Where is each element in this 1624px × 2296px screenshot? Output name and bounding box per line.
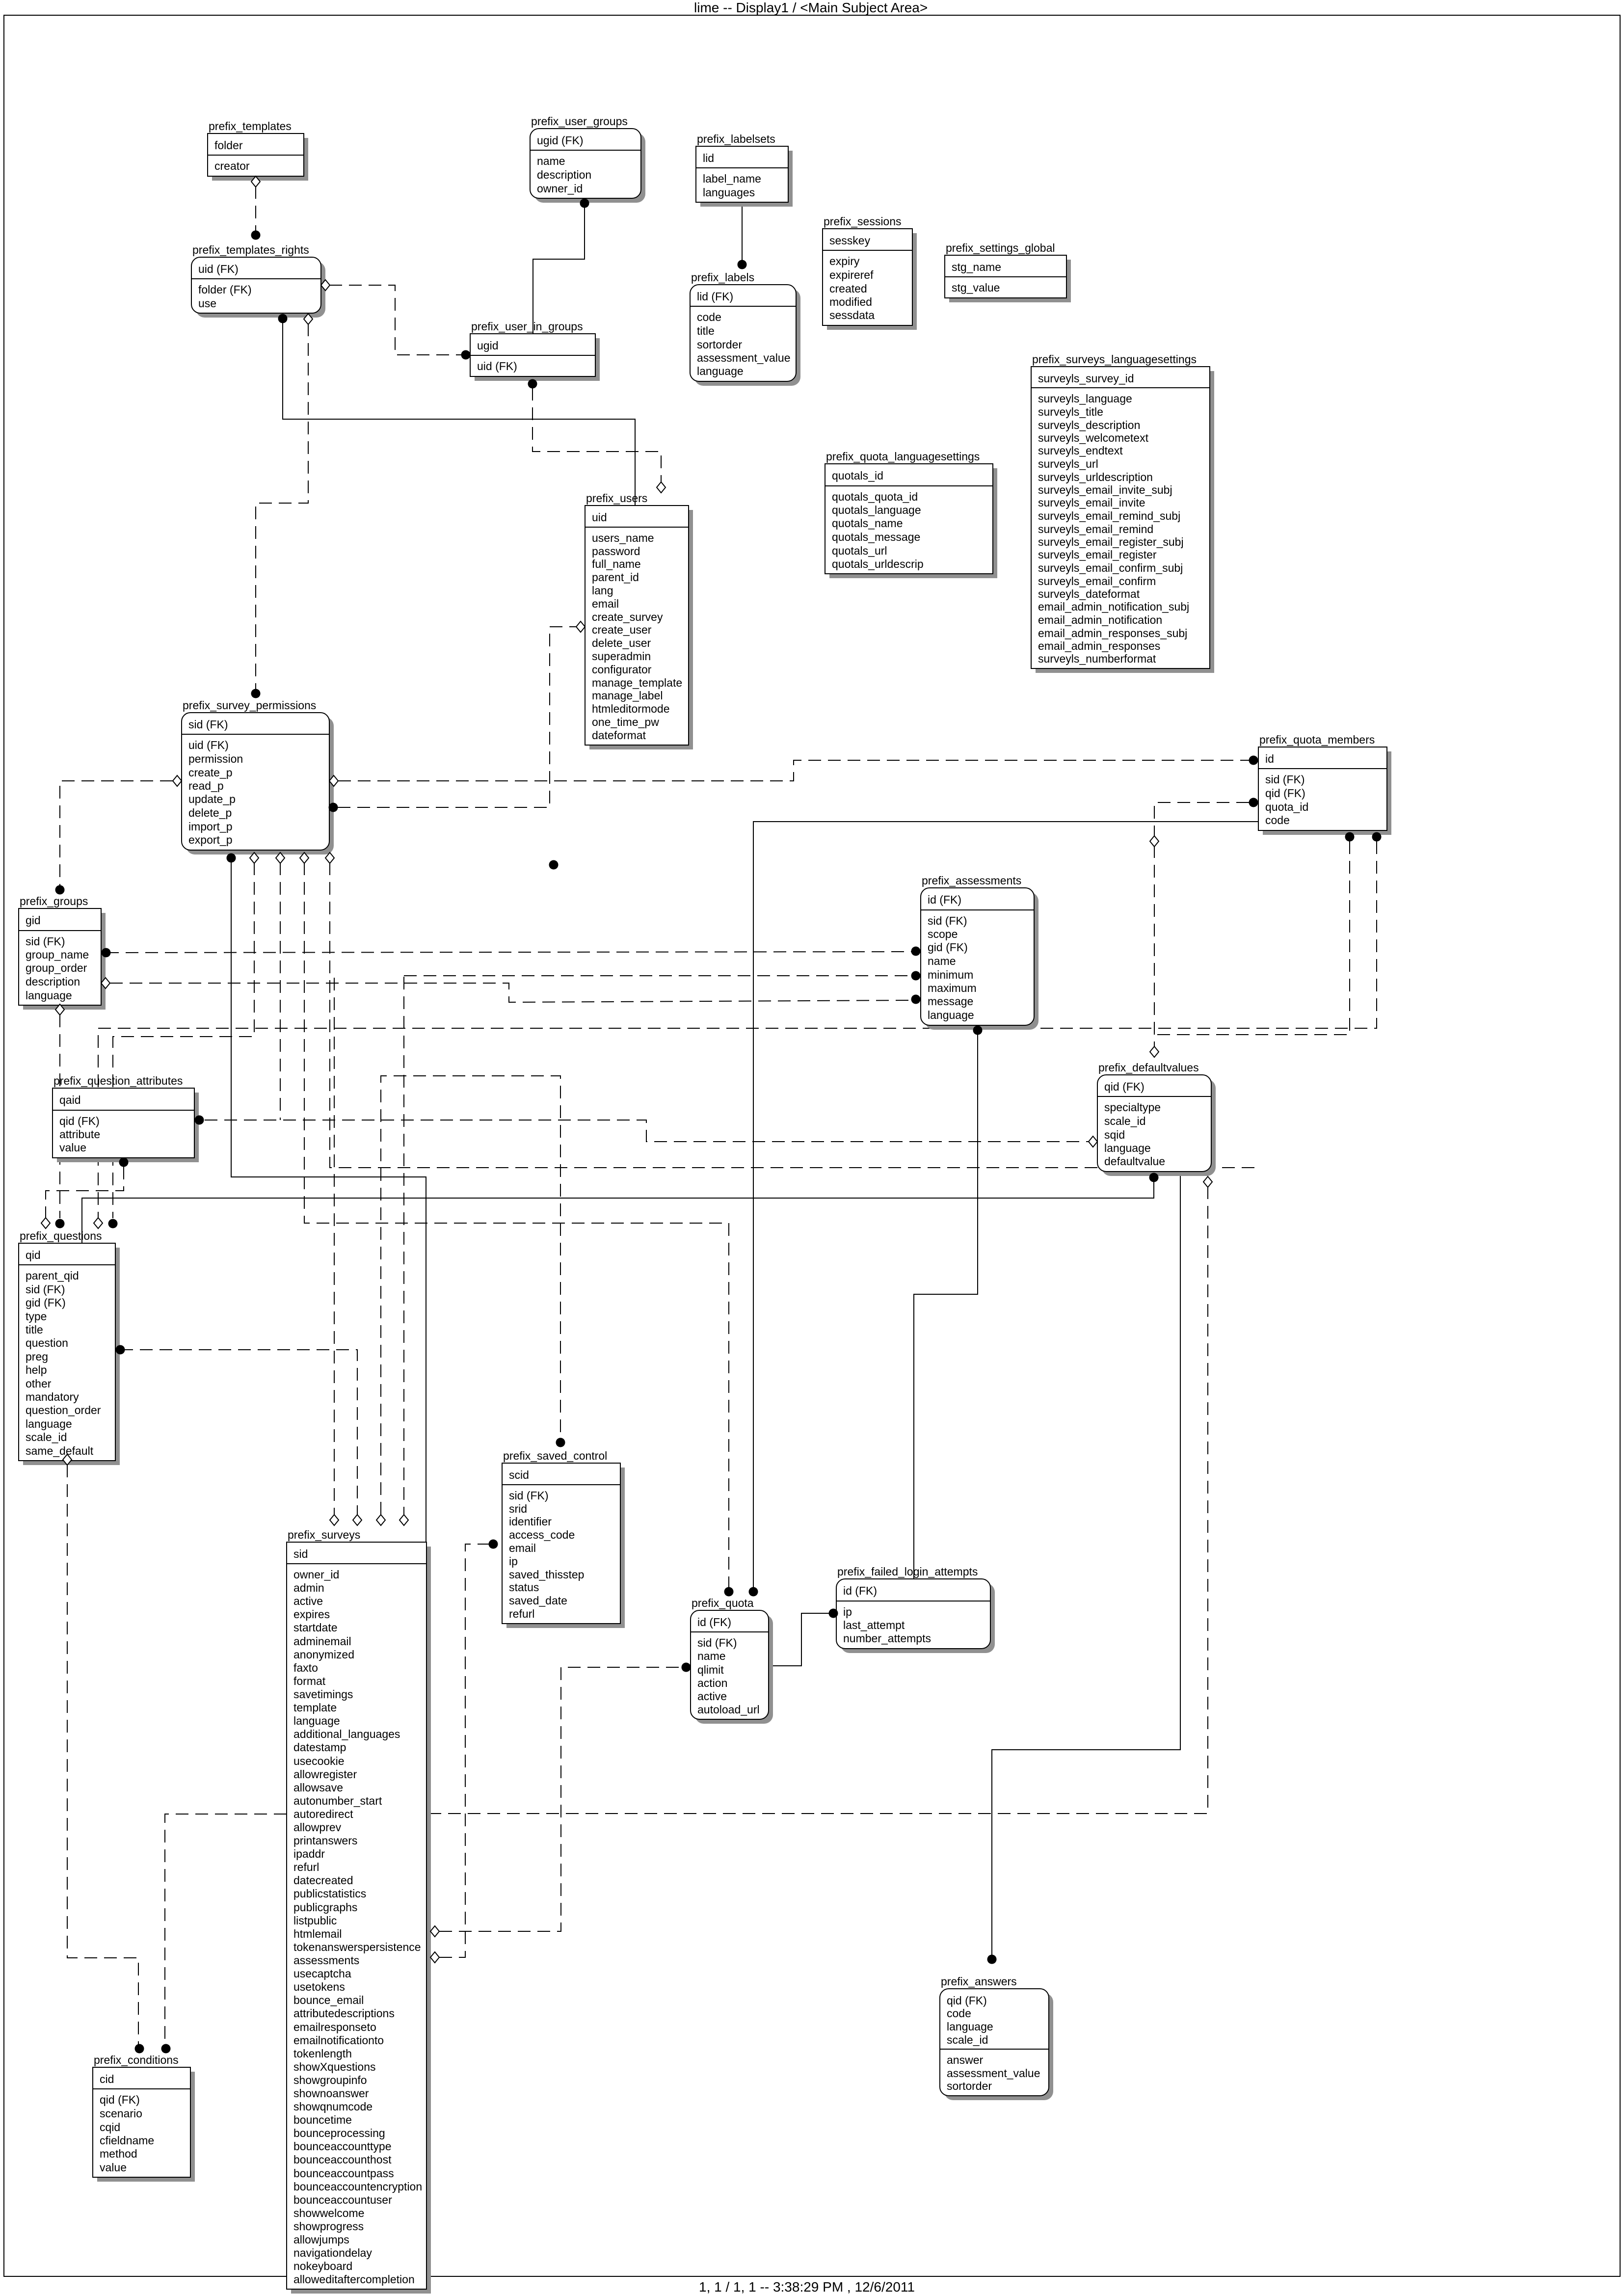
svg-text:email_admin_responses_subj: email_admin_responses_subj — [1038, 627, 1187, 640]
svg-text:prefix_quota_members: prefix_quota_members — [1259, 733, 1375, 746]
svg-text:assessment_value: assessment_value — [947, 2067, 1040, 2080]
svg-text:sid (FK): sid (FK) — [188, 718, 228, 731]
svg-text:autoredirect: autoredirect — [293, 1808, 353, 1820]
connector symbols users-templates_rights — [278, 314, 288, 323]
connector symbols floating-dot — [549, 860, 559, 870]
svg-text:bounceaccountuser: bounceaccountuser — [293, 2193, 392, 2206]
svg-text:ip: ip — [843, 1605, 852, 1618]
connector symbols surveys-assessments-min — [399, 1515, 408, 1525]
svg-text:prefix_users: prefix_users — [586, 492, 647, 505]
connector symbols sp-surveys-solid — [227, 854, 236, 863]
svg-text:id (FK): id (FK) — [843, 1584, 877, 1597]
svg-text:prefix_quota: prefix_quota — [692, 1597, 754, 1609]
svg-text:surveyls_endtext: surveyls_endtext — [1038, 444, 1123, 457]
wire groups-assessments-msg — [110, 983, 911, 1002]
svg-text:htmleditormode: htmleditormode — [592, 702, 670, 715]
wire templates_rights-user_in_groups — [329, 285, 461, 355]
svg-text:startdate: startdate — [293, 1621, 338, 1634]
svg-text:sessdata: sessdata — [829, 309, 875, 321]
svg-text:id (FK): id (FK) — [697, 1616, 731, 1629]
svg-text:method: method — [100, 2147, 137, 2160]
svg-text:users_name: users_name — [592, 532, 654, 544]
svg-text:email_admin_responses: email_admin_responses — [1038, 640, 1160, 652]
wire sp-questions-230 — [113, 862, 254, 1218]
svg-text:navigationdelay: navigationdelay — [293, 2246, 372, 2259]
svg-text:qid (FK): qid (FK) — [59, 1115, 100, 1127]
svg-text:autonumber_start: autonumber_start — [293, 1794, 382, 1807]
wire labelsets-labels — [742, 201, 743, 260]
svg-text:quotals_id: quotals_id — [832, 469, 883, 482]
svg-text:group_name: group_name — [26, 948, 89, 961]
svg-text:adminemail: adminemail — [293, 1635, 351, 1648]
svg-text:quota_id: quota_id — [1265, 801, 1308, 813]
wire qa-defaultvalues-left — [205, 1120, 1089, 1142]
svg-text:use: use — [198, 297, 216, 310]
svg-text:surveyls_email_confirm_subj: surveyls_email_confirm_subj — [1038, 561, 1183, 574]
svg-text:sid (FK): sid (FK) — [26, 1283, 65, 1296]
svg-text:email: email — [592, 597, 619, 610]
svg-text:prefix_defaultvalues: prefix_defaultvalues — [1098, 1061, 1199, 1074]
svg-text:type: type — [26, 1310, 47, 1323]
svg-text:minimum: minimum — [928, 968, 973, 981]
wire groups-assessments-gid — [106, 952, 911, 953]
svg-text:read_p: read_p — [188, 779, 224, 792]
table prefix_answers — [940, 1975, 1053, 2100]
svg-text:emailresponseto: emailresponseto — [293, 2021, 376, 2033]
svg-text:export_p: export_p — [188, 833, 233, 846]
connector symbols templates_rights-user_in_groups — [321, 280, 471, 360]
svg-text:stg_value: stg_value — [952, 281, 1000, 294]
svg-text:ipaddr: ipaddr — [293, 1847, 325, 1860]
svg-text:template: template — [293, 1701, 337, 1714]
svg-text:sid (FK): sid (FK) — [697, 1636, 737, 1649]
svg-text:prefix_settings_global: prefix_settings_global — [946, 241, 1055, 254]
table prefix_templates_rights — [191, 243, 325, 318]
wire questions-surveys-728 — [120, 1350, 357, 1515]
svg-text:usecookie: usecookie — [293, 1755, 345, 1767]
connector symbols user_in_groups-users — [528, 379, 666, 493]
svg-text:language: language — [928, 1009, 974, 1021]
svg-text:creator: creator — [214, 160, 250, 172]
svg-text:code: code — [1265, 814, 1290, 827]
connector symbols qa-questions — [41, 1158, 129, 1229]
svg-text:description: description — [26, 975, 80, 988]
wire defaultvalues-surveys-3695 — [426, 1186, 1208, 1814]
connector symbols user_groups-user_in_groups — [580, 199, 589, 208]
svg-text:owner_id: owner_id — [537, 182, 583, 195]
table prefix_defaultvalues — [1097, 1061, 1216, 1176]
svg-text:surveyls_dateformat: surveyls_dateformat — [1038, 587, 1140, 600]
svg-text:message: message — [928, 995, 973, 1008]
connector symbols defaultvalues-answers-solid — [987, 1955, 997, 1964]
svg-text:nokeyboard: nokeyboard — [293, 2260, 352, 2272]
wire defaultvalues-questions-solid — [82, 1182, 1154, 1243]
svg-text:printanswers: printanswers — [293, 1834, 357, 1847]
svg-text:allowsave: allowsave — [293, 1781, 343, 1794]
svg-text:answer: answer — [947, 2054, 983, 2066]
svg-text:import_p: import_p — [188, 820, 232, 833]
svg-text:datecreated: datecreated — [293, 1874, 353, 1887]
svg-text:showqnumcode: showqnumcode — [293, 2100, 373, 2113]
svg-text:qlimit: qlimit — [697, 1663, 724, 1676]
svg-text:number_attempts: number_attempts — [843, 1632, 931, 1645]
svg-text:surveyls_title: surveyls_title — [1038, 405, 1103, 418]
svg-text:one_time_pw: one_time_pw — [592, 716, 659, 728]
svg-text:prefix_labels: prefix_labels — [691, 271, 754, 284]
svg-text:gid (FK): gid (FK) — [26, 1296, 66, 1309]
svg-text:description: description — [537, 168, 591, 181]
table prefix_quota_languagesettings — [825, 450, 997, 578]
svg-text:surveyls_description: surveyls_description — [1038, 419, 1140, 431]
wire chan-1988 — [404, 975, 911, 976]
svg-text:lid (FK): lid (FK) — [697, 290, 733, 303]
svg-text:faxto: faxto — [293, 1661, 318, 1674]
svg-text:savetimings: savetimings — [293, 1688, 353, 1701]
svg-text:prefix_quota_languagesettings: prefix_quota_languagesettings — [826, 450, 980, 463]
svg-text:surveyls_email_remind: surveyls_email_remind — [1038, 523, 1153, 535]
svg-text:prefix_labelsets: prefix_labelsets — [697, 133, 775, 145]
svg-text:qid (FK): qid (FK) — [1265, 787, 1305, 800]
connector symbols templates_rights-sp — [251, 314, 313, 698]
svg-text:scenario: scenario — [100, 2107, 142, 2120]
svg-text:status: status — [509, 1581, 539, 1594]
wire quota_members-quota-solid — [753, 822, 1258, 1587]
connector symbols chan-1988 — [911, 971, 921, 981]
svg-text:bounceaccounttype: bounceaccounttype — [293, 2140, 392, 2153]
wire sp-defaultvalues-2379 — [330, 862, 1256, 1168]
svg-text:uid (FK): uid (FK) — [477, 360, 517, 373]
wire quota_members-questions — [98, 841, 1377, 1218]
svg-text:owner_id: owner_id — [293, 1568, 339, 1581]
svg-text:value: value — [100, 2161, 127, 2174]
connector symbols quota-failed_login — [829, 1609, 838, 1618]
svg-text:superadmin: superadmin — [592, 650, 651, 663]
svg-text:active: active — [697, 1690, 727, 1703]
table prefix_sessions — [823, 215, 917, 330]
connector symbols defaultvalues-surveys-3695 — [1203, 1176, 1212, 1187]
svg-text:surveyls_survey_id: surveyls_survey_id — [1038, 372, 1134, 385]
svg-text:question: question — [26, 1336, 68, 1349]
svg-text:datestamp: datestamp — [293, 1741, 346, 1754]
table prefix_groups — [19, 895, 106, 1010]
svg-text:prefix_assessments: prefix_assessments — [922, 874, 1021, 887]
table prefix_user_groups — [530, 115, 645, 203]
svg-text:tokenanswerspersistence: tokenanswerspersistence — [293, 1941, 421, 1953]
svg-text:bounce_email: bounce_email — [293, 1994, 364, 2006]
svg-text:alloweditaftercompletion: alloweditaftercompletion — [293, 2273, 415, 2286]
connector symbols surveys-681 — [330, 1515, 339, 1525]
wire surveys-saved_control-assess — [439, 1544, 489, 1957]
svg-text:surveyls_email_remind_subj: surveyls_email_remind_subj — [1038, 509, 1180, 522]
svg-text:prefix_questions: prefix_questions — [20, 1229, 102, 1242]
wire surveys-681 — [334, 978, 335, 1515]
table prefix_templates — [208, 120, 308, 181]
table prefix_user_in_groups — [470, 320, 600, 381]
svg-text:bounceaccountencryption: bounceaccountencryption — [293, 2180, 422, 2193]
svg-text:bounceaccountpass: bounceaccountpass — [293, 2167, 394, 2180]
connector symbols labelsets-labels — [738, 260, 747, 269]
svg-text:prefix_answers: prefix_answers — [941, 1975, 1017, 1988]
svg-text:usecaptcha: usecaptcha — [293, 1967, 351, 1980]
svg-text:cfieldname: cfieldname — [100, 2134, 154, 2147]
svg-text:sid (FK): sid (FK) — [1265, 773, 1305, 786]
wire quota_members-defaultvalues-2108 — [1156, 841, 1350, 1035]
svg-text:modified: modified — [829, 295, 872, 308]
table prefix_question_attributes — [53, 1074, 199, 1162]
wire sp-quota_members-id — [338, 760, 1249, 781]
svg-text:prefix_sessions: prefix_sessions — [824, 215, 902, 228]
svg-text:email_admin_notification: email_admin_notification — [1038, 614, 1162, 626]
svg-text:prefix_templates_rights: prefix_templates_rights — [192, 243, 309, 256]
svg-text:listpublic: listpublic — [293, 1914, 337, 1927]
svg-text:surveyls_email_invite_subj: surveyls_email_invite_subj — [1038, 483, 1172, 496]
connector symbols assessments-failed_login — [973, 1026, 983, 1035]
svg-text:qid (FK): qid (FK) — [1104, 1080, 1145, 1093]
svg-text:qid: qid — [26, 1249, 41, 1261]
svg-text:same_default: same_default — [26, 1444, 94, 1457]
svg-text:label_name: label_name — [703, 172, 761, 185]
svg-text:prefix_failed_login_attempts: prefix_failed_login_attempts — [837, 1565, 978, 1578]
connector symbols sp-quota-2492 — [300, 853, 734, 1597]
svg-text:name: name — [537, 155, 565, 167]
svg-text:quotals_url: quotals_url — [832, 544, 887, 557]
svg-text:refurl: refurl — [293, 1861, 319, 1873]
svg-text:quotals_name: quotals_name — [832, 517, 903, 530]
svg-text:lang: lang — [592, 584, 613, 597]
wire qa-questions — [46, 1167, 124, 1218]
svg-text:expireref: expireref — [829, 268, 874, 281]
table prefix_quota — [691, 1597, 773, 1724]
connector symbols surveys-saved_control-top — [376, 1438, 565, 1526]
svg-text:language: language — [26, 1417, 72, 1430]
svg-text:scale_id: scale_id — [1104, 1115, 1145, 1127]
svg-text:surveyls_email_confirm: surveyls_email_confirm — [1038, 575, 1156, 587]
svg-text:identifier: identifier — [509, 1515, 552, 1528]
connector symbols qa-defaultvalues-left — [195, 1116, 1098, 1148]
svg-text:name: name — [697, 1650, 726, 1662]
table prefix_failed_login_attempts — [836, 1565, 995, 1653]
wire surveys-conditions — [165, 1814, 287, 2044]
svg-text:sid (FK): sid (FK) — [26, 935, 65, 948]
svg-text:showXquestions: showXquestions — [293, 2060, 376, 2073]
svg-text:htmlemail: htmlemail — [293, 1927, 342, 1940]
connector symbols quota_members-defaultvalues-top — [1150, 798, 1258, 1058]
svg-text:language: language — [697, 365, 744, 377]
connector symbols quota_members-defaultvalues-2108 — [1345, 832, 1355, 842]
connector symbols sp-groups — [55, 775, 182, 895]
svg-text:autoload_url: autoload_url — [697, 1703, 760, 1716]
connector symbols surveys-quota-htmlemail — [430, 1663, 691, 1937]
svg-text:uid (FK): uid (FK) — [198, 263, 239, 275]
svg-text:cqid: cqid — [100, 2121, 120, 2134]
svg-text:email: email — [509, 1542, 536, 1554]
connector symbols groups-assessments-gid — [102, 947, 921, 958]
svg-text:surveyls_numberformat: surveyls_numberformat — [1038, 652, 1156, 665]
svg-text:format: format — [293, 1675, 326, 1687]
wire surveys-assessments-min — [403, 977, 404, 1515]
wire sp-571-stub — [280, 862, 281, 1120]
svg-text:sid (FK): sid (FK) — [928, 914, 967, 927]
svg-text:lime -- Display1 / <Main Subje: lime -- Display1 / <Main Subject Area> — [694, 0, 928, 15]
table prefix_survey_permissions — [182, 699, 334, 854]
svg-text:scale_id: scale_id — [26, 1431, 67, 1443]
svg-text:prefix_user_groups: prefix_user_groups — [531, 115, 628, 128]
svg-text:parent_qid: parent_qid — [26, 1269, 79, 1282]
svg-text:sid: sid — [293, 1548, 308, 1560]
svg-text:showwelcome: showwelcome — [293, 2207, 364, 2219]
wire templates-templates_rights — [255, 186, 256, 231]
svg-text:language: language — [293, 1714, 340, 1727]
svg-text:assessment_value: assessment_value — [697, 351, 791, 364]
svg-text:manage_template: manage_template — [592, 676, 682, 689]
svg-text:tokenlength: tokenlength — [293, 2047, 352, 2060]
svg-text:specialtype: specialtype — [1104, 1101, 1161, 1114]
svg-text:prefix_templates: prefix_templates — [209, 120, 292, 133]
svg-text:ugid (FK): ugid (FK) — [537, 134, 584, 147]
wire user_in_groups-users — [532, 388, 661, 482]
svg-text:showgroupinfo: showgroupinfo — [293, 2074, 367, 2086]
table prefix_users — [585, 492, 693, 749]
svg-text:prefix_surveys: prefix_surveys — [288, 1528, 360, 1541]
svg-text:language: language — [947, 2020, 993, 2033]
connector symbols sp-questions-230 — [108, 853, 259, 1228]
svg-text:quotals_urldescrip: quotals_urldescrip — [832, 558, 924, 570]
wire groups-questions — [59, 1015, 60, 1218]
svg-text:stg_name: stg_name — [952, 261, 1001, 273]
svg-text:permission: permission — [188, 752, 243, 765]
svg-text:title: title — [697, 324, 715, 337]
svg-text:help: help — [26, 1363, 47, 1376]
svg-text:languages: languages — [703, 186, 755, 199]
svg-text:preg: preg — [26, 1350, 48, 1363]
wire sp-quota-2492 — [304, 862, 729, 1587]
connector symbols users-sp — [329, 621, 586, 812]
svg-text:sqid: sqid — [1104, 1128, 1125, 1141]
svg-text:prefix_saved_control: prefix_saved_control — [503, 1449, 607, 1462]
table prefix_surveys_languagesettings — [1031, 353, 1214, 673]
svg-text:value: value — [59, 1141, 86, 1154]
wire sp-groups — [60, 781, 173, 885]
connector symbols sp-defaultvalues-2379 — [325, 853, 334, 863]
svg-text:expiry: expiry — [829, 255, 860, 267]
connector symbols defaultvalues-questions-solid — [1149, 1173, 1159, 1182]
svg-text:sesskey: sesskey — [829, 234, 871, 247]
svg-text:publicgraphs: publicgraphs — [293, 1901, 357, 1914]
svg-text:maximum: maximum — [928, 982, 977, 994]
svg-text:admin: admin — [293, 1581, 324, 1594]
wire surveys-saved_control-top — [381, 1076, 560, 1515]
svg-text:prefix_question_attributes: prefix_question_attributes — [53, 1074, 183, 1087]
table prefix_labelsets — [696, 133, 793, 207]
connector symbols sp-571-stub — [276, 853, 285, 863]
svg-text:scope: scope — [928, 928, 958, 940]
svg-text:srid: srid — [509, 1502, 527, 1515]
svg-text:delete_user: delete_user — [592, 637, 651, 649]
svg-text:password: password — [592, 545, 640, 558]
svg-text:language: language — [26, 989, 72, 1002]
svg-text:ip: ip — [509, 1555, 518, 1568]
svg-text:saved_date: saved_date — [509, 1594, 567, 1607]
connector symbols surveys-conditions — [161, 2044, 171, 2054]
svg-text:surveyls_email_register_subj: surveyls_email_register_subj — [1038, 535, 1184, 548]
svg-text:prefix_user_in_groups: prefix_user_in_groups — [471, 320, 583, 333]
svg-text:folder: folder — [214, 139, 243, 152]
svg-text:active: active — [293, 1595, 323, 1607]
wire floating-dot — [0, 0, 0, 0]
svg-text:publicstatistics: publicstatistics — [293, 1887, 366, 1900]
svg-text:quotals_quota_id: quotals_quota_id — [832, 490, 918, 503]
svg-text:assessments: assessments — [293, 1954, 359, 1967]
table prefix_settings_global — [945, 241, 1071, 302]
svg-text:create_p: create_p — [188, 766, 233, 779]
svg-text:full_name: full_name — [592, 558, 641, 570]
svg-text:id: id — [1265, 752, 1274, 765]
svg-text:gid: gid — [26, 914, 41, 927]
svg-text:access_code: access_code — [509, 1528, 575, 1541]
svg-text:allowjumps: allowjumps — [293, 2233, 349, 2246]
svg-text:name: name — [928, 955, 956, 967]
svg-text:uid: uid — [592, 511, 607, 524]
svg-text:sortorder: sortorder — [697, 338, 742, 351]
svg-text:scale_id: scale_id — [947, 2033, 988, 2046]
svg-text:quotals_language: quotals_language — [832, 504, 921, 516]
svg-text:scid: scid — [509, 1468, 529, 1481]
table prefix_saved_control — [502, 1449, 625, 1628]
svg-text:qid (FK): qid (FK) — [100, 2093, 140, 2106]
table prefix_assessments — [921, 874, 1038, 1030]
svg-text:prefix_surveys_languagesetting: prefix_surveys_languagesettings — [1032, 353, 1197, 366]
svg-text:defaultvalue: defaultvalue — [1104, 1155, 1165, 1168]
svg-text:cid: cid — [100, 2073, 114, 2085]
svg-text:last_attempt: last_attempt — [843, 1619, 905, 1631]
svg-text:lid: lid — [703, 152, 714, 164]
svg-text:delete_p: delete_p — [188, 806, 232, 819]
svg-text:bounceaccounthost: bounceaccounthost — [293, 2153, 392, 2166]
svg-text:title: title — [26, 1323, 43, 1336]
connector symbols sp-quota_members-id — [329, 756, 1258, 787]
svg-text:quotals_message: quotals_message — [832, 531, 920, 543]
svg-text:created: created — [829, 282, 867, 295]
svg-text:prefix_groups: prefix_groups — [20, 895, 88, 908]
svg-text:emailnotificationto: emailnotificationto — [293, 2034, 384, 2047]
svg-text:attributedescriptions: attributedescriptions — [293, 2007, 395, 2020]
svg-text:1, 1 / 1, 1 -- 3:38:29 PM ,: 1, 1 / 1, 1 -- 3:38:29 PM , 12/6/2011 — [699, 2279, 915, 2295]
svg-text:additional_languages: additional_languages — [293, 1728, 400, 1740]
svg-text:prefix_conditions: prefix_conditions — [94, 2054, 179, 2066]
wire defaultvalues-answers-solid — [992, 1173, 1180, 1955]
svg-text:saved_thisstep: saved_thisstep — [509, 1568, 584, 1581]
svg-text:ugid: ugid — [477, 339, 498, 352]
table prefix_quota_members — [1258, 733, 1391, 835]
svg-text:surveyls_language: surveyls_language — [1038, 392, 1132, 405]
svg-text:surveyls_url: surveyls_url — [1038, 457, 1098, 470]
svg-text:refurl: refurl — [509, 1607, 534, 1620]
wire surveys-quota-htmlemail — [439, 1667, 682, 1931]
svg-text:showprogress: showprogress — [293, 2220, 364, 2233]
svg-text:usetokens: usetokens — [293, 1980, 345, 1993]
svg-text:sortorder: sortorder — [947, 2080, 992, 2092]
connector symbols surveys-saved_control-assess — [430, 1540, 498, 1963]
svg-text:code: code — [697, 311, 721, 323]
wire templates_rights-sp — [256, 323, 308, 689]
svg-text:shownoanswer: shownoanswer — [293, 2087, 369, 2100]
svg-text:surveyls_email_invite: surveyls_email_invite — [1038, 496, 1145, 509]
svg-text:prefix_survey_permissions: prefix_survey_permissions — [183, 699, 316, 712]
svg-text:id (FK): id (FK) — [928, 893, 961, 906]
svg-text:allowregister: allowregister — [293, 1768, 357, 1781]
svg-text:sid (FK): sid (FK) — [509, 1489, 549, 1502]
connector symbols groups-questions — [55, 1004, 65, 1228]
